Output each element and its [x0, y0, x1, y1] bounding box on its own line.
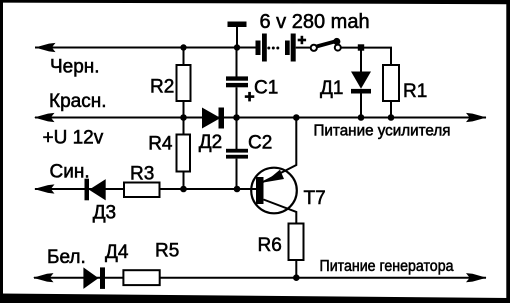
battery 6v (plates and cell dots)	[256, 34, 296, 62]
svg-text:R2: R2	[150, 76, 174, 97]
svg-text:R3: R3	[130, 163, 154, 184]
wire: +12v rail (Красн.)	[35, 117, 486, 119]
svg-text:Питание генератора: Питание генератора	[320, 258, 454, 275]
diode Д4	[83, 267, 105, 289]
capacitor C1	[226, 48, 248, 118]
transistor T7 body circle	[251, 168, 297, 214]
arrow right to generator supply	[466, 273, 487, 282]
svg-text:Питание усилителя: Питание усилителя	[314, 122, 451, 139]
svg-text:C1: C1	[254, 78, 278, 99]
wire: switch to R1 top corner	[341, 48, 391, 65]
svg-text:R1: R1	[403, 81, 427, 102]
node junction C1-C2 / rail	[233, 114, 240, 121]
node junction Д1 / rail	[358, 114, 365, 121]
node junction emitter / rail	[293, 114, 300, 121]
node junction R4 / base rail	[180, 186, 187, 193]
svg-text:Д3: Д3	[93, 203, 116, 224]
svg-text:Красн.: Красн.	[49, 91, 106, 112]
node junction R6 / bottom rail	[293, 274, 300, 281]
svg-text:Д1: Д1	[320, 78, 343, 99]
node junction R2-R4 / rail	[180, 114, 187, 121]
diode Д2	[202, 108, 224, 129]
svg-text:+U 12v: +U 12v	[43, 128, 104, 149]
svg-text:6 v 280 mah: 6 v 280 mah	[260, 11, 370, 33]
resistor R3	[124, 183, 160, 198]
terminal post	[228, 22, 247, 48]
resistor R2	[177, 48, 191, 118]
wire: bottom rail (Бел.)	[34, 277, 486, 279]
switch (open toggle)	[311, 38, 341, 51]
base bar of T7	[256, 177, 264, 204]
node junction Д1 / switch wire	[358, 44, 364, 50]
arrow right to amplifier supply	[466, 113, 487, 122]
node junction R2 / top rail	[180, 44, 186, 50]
node junction C2 / base rail	[234, 186, 241, 193]
diode Д3	[85, 179, 106, 201]
svg-text:C2: C2	[248, 133, 272, 154]
svg-text:R6: R6	[258, 235, 282, 256]
wire: collector of T7 down to R6	[264, 200, 297, 225]
svg-text:Черн.: Черн.	[50, 57, 100, 78]
arrow left on Син. line	[34, 184, 55, 193]
capacitor C2	[226, 118, 248, 190]
diode Д1	[351, 48, 371, 118]
svg-text:Д2: Д2	[199, 132, 222, 153]
wire: emitter to +12v rail	[263, 118, 296, 183]
resistor R1	[383, 65, 399, 118]
resistor R5	[123, 270, 159, 285]
svg-text:R5: R5	[155, 241, 179, 262]
node junction R1 / rail	[388, 114, 395, 121]
arrow left on Красн. line	[34, 113, 55, 122]
svg-text:Д4: Д4	[105, 242, 129, 263]
arrow left on Черн. line	[35, 43, 56, 52]
arrow left on Бел. line	[33, 273, 54, 282]
plus sign at C1	[245, 92, 255, 102]
svg-text:Бел.: Бел.	[47, 247, 86, 268]
svg-text:T7: T7	[304, 188, 326, 209]
wire: top rail (Черн. lead to battery)	[35, 47, 256, 49]
emitter arrowhead of T7	[265, 170, 284, 183]
plus sign at battery positive	[298, 36, 306, 44]
svg-text:R4: R4	[148, 133, 173, 154]
wire: base rail (Син.)	[35, 188, 257, 190]
resistor R6	[289, 224, 304, 278]
svg-text:Син.: Син.	[50, 161, 90, 182]
wire: battery positive to switch	[296, 47, 311, 49]
resistor R4	[177, 118, 191, 190]
node junction terminal post / top rail	[234, 44, 240, 50]
